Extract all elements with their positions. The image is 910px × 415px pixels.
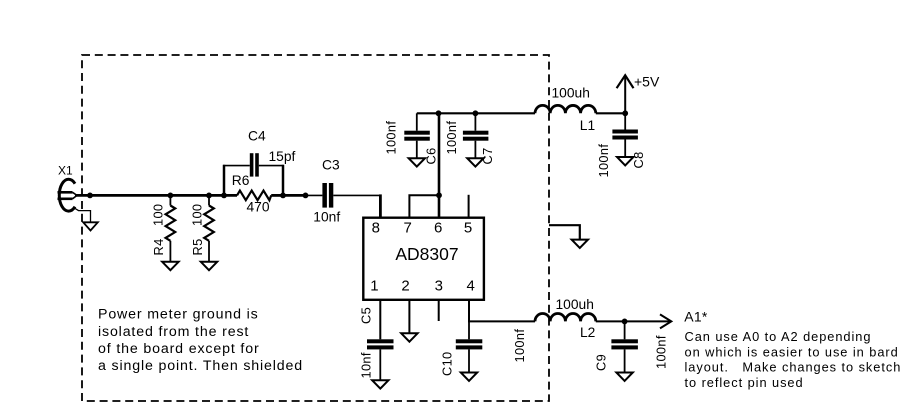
svg-text:100nf: 100nf [383, 121, 398, 155]
wire L2 to output [596, 320, 670, 322]
resistor R6 [232, 173, 283, 214]
output arrow A1 [660, 314, 671, 328]
svg-text:+5V: +5V [634, 74, 660, 90]
wire X1 shield to ground [74, 208, 91, 223]
svg-text:100nf: 100nf [512, 329, 527, 363]
svg-text:of the board except for: of the board except for [98, 341, 260, 357]
svg-text:to reflect pin used: to reflect pin used [685, 375, 804, 390]
svg-text:470: 470 [247, 200, 270, 215]
ground (R4) [162, 262, 178, 270]
svg-text:a single point. Then shielded: a single point. Then shielded [98, 358, 303, 374]
ground (C6) [409, 158, 425, 166]
svg-text:X1: X1 [58, 164, 73, 178]
node R6/C4 right [280, 193, 286, 199]
node pre-C3 [303, 193, 309, 199]
resistor R5 [190, 195, 214, 261]
pin 3 stub [438, 300, 440, 321]
svg-text:100nf: 100nf [596, 144, 611, 178]
pin 2 wire [408, 300, 410, 333]
capacitor C10 [440, 321, 528, 376]
svg-text:100uh: 100uh [556, 297, 594, 312]
svg-text:10nf: 10nf [359, 352, 374, 378]
svg-text:1: 1 [370, 277, 378, 294]
svg-text:L1: L1 [580, 118, 595, 133]
wire node to C3 [283, 194, 306, 197]
capacitor C8 [596, 113, 646, 177]
wire C3 to pin 8 [333, 194, 381, 196]
wire pin 7 jog [409, 195, 439, 217]
svg-text:C6: C6 [424, 147, 439, 164]
svg-text:10nf: 10nf [313, 209, 340, 224]
svg-text:100nf: 100nf [654, 335, 669, 369]
ground (shield) [572, 240, 588, 248]
ground (C5) [372, 380, 388, 388]
wire main signal [75, 194, 237, 197]
note left paragraph [98, 307, 303, 374]
svg-text:R4: R4 [151, 238, 166, 255]
IC U1 AD8307 [363, 218, 484, 300]
inductor L1 [535, 86, 596, 134]
capacitor C4 [223, 129, 296, 196]
svg-text:5: 5 [464, 219, 472, 236]
node R4 [168, 193, 174, 199]
note right paragraph [685, 329, 902, 390]
svg-text:layout. Make changes to sket: layout. Make changes to sketch [685, 360, 902, 375]
svg-text:100: 100 [190, 204, 205, 226]
resistor R4 [151, 195, 176, 261]
node R5 [206, 193, 212, 199]
svg-text:8: 8 [372, 219, 380, 236]
svg-text:7: 7 [404, 219, 412, 236]
shield enclosure dashed box [82, 55, 549, 401]
vcc rail wire [417, 112, 535, 114]
svg-text:on which is easier to use in b: on which is easier to use in bard [685, 344, 899, 359]
svg-text:100uh: 100uh [552, 86, 590, 101]
ground (C9) [616, 373, 632, 381]
ground (pin 2) [401, 333, 417, 341]
svg-text:isolated from the rest: isolated from the rest [98, 324, 249, 340]
node R6/C4 left [221, 193, 227, 199]
ground (R5) [201, 262, 217, 270]
ground (C7) [467, 158, 483, 166]
inductor L2 [535, 297, 596, 340]
svg-text:15pf: 15pf [269, 149, 296, 164]
svg-text:C5: C5 [359, 307, 374, 324]
capacitor C3 [313, 158, 340, 225]
wire pin 6 vertical [438, 113, 441, 217]
node C9/output [622, 319, 628, 325]
capacitor C5 [359, 307, 394, 380]
ground (C10) [461, 373, 477, 381]
ground (C8) [617, 157, 633, 165]
svg-text:L2: L2 [580, 325, 595, 340]
capacitor C6 [383, 113, 438, 164]
svg-text:6: 6 [434, 219, 442, 236]
capacitor C9 [593, 321, 668, 372]
node pin7/pin6 [436, 192, 442, 198]
svg-text:C9: C9 [593, 354, 608, 371]
svg-text:3: 3 [435, 277, 443, 294]
ground (X1) [83, 222, 98, 230]
svg-text:C8: C8 [631, 151, 646, 168]
node X1 out [87, 193, 93, 199]
svg-text:C7: C7 [480, 147, 495, 164]
svg-text:R6: R6 [232, 173, 250, 188]
svg-text:C10: C10 [440, 351, 455, 376]
svg-text:4: 4 [467, 277, 475, 294]
svg-text:Can use A0 to A2 depending: Can use A0 to A2 depending [685, 329, 872, 344]
node +5V/C8 [622, 110, 628, 116]
connector X1 [58, 164, 78, 212]
svg-text:100nf: 100nf [444, 121, 459, 155]
pin 5 stub [468, 195, 470, 218]
svg-text:AD8307: AD8307 [395, 244, 458, 264]
capacitor C7 [444, 113, 495, 164]
pin 4 wire [469, 300, 535, 322]
svg-text:2: 2 [401, 277, 409, 294]
svg-text:Power meter ground is: Power meter ground is [98, 307, 259, 323]
svg-text:C3: C3 [322, 158, 340, 173]
pin 1 wire [379, 300, 381, 340]
svg-text:C4: C4 [248, 129, 266, 144]
+5V supply arrow [617, 74, 660, 114]
node rail/pin6 [436, 110, 442, 116]
wire L1 to +5V node [596, 112, 625, 114]
svg-text:100: 100 [151, 204, 166, 226]
svg-text:A1*: A1* [684, 308, 708, 324]
shield ground stub [549, 225, 580, 239]
node rail/C7 [473, 110, 479, 116]
svg-text:R5: R5 [190, 238, 205, 255]
